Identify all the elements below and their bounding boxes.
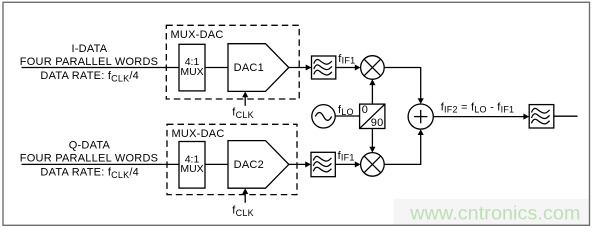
svg-text:Q-DATA: Q-DATA (69, 140, 111, 152)
wire I-data input (22, 67, 180, 69)
svg-text:FOUR PARALLEL WORDS: FOUR PARALLEL WORDS (20, 152, 158, 164)
svg-text:MUX: MUX (180, 163, 203, 175)
arrowhead fCLK into DAC1 (242, 91, 248, 97)
wire phase 0 to mixer M1 (371, 85, 373, 104)
filter FL3 (529, 105, 554, 128)
svg-text:90: 90 (371, 117, 384, 129)
arrowhead into FL1 (306, 64, 312, 70)
filter FL2 (311, 152, 335, 176)
svg-text:www.cntronics.com: www.cntronics.com (409, 203, 580, 225)
svg-text:fLO: fLO (338, 104, 354, 117)
wire DAC1 to filter FL1 (288, 67, 308, 69)
arrowhead fCLK into DAC2 (242, 188, 248, 194)
oscillator LO (312, 105, 335, 128)
wire mixer M1 to summer (384, 68, 421, 101)
dashed box MUX-DAC lower (167, 124, 297, 194)
wire mixer M2 to summer (384, 134, 421, 164)
svg-text:fIF1: fIF1 (338, 53, 355, 66)
svg-text:MUX-DAC: MUX-DAC (171, 29, 224, 41)
svg-text:fCLK: fCLK (232, 107, 254, 120)
arrowhead into summer bottom (418, 129, 424, 135)
svg-text:MUX-DAC: MUX-DAC (172, 128, 225, 140)
dac DAC1 (228, 44, 289, 92)
arrowhead into mixer M2 top (369, 147, 375, 153)
wire summer to filter FL3 (433, 116, 525, 118)
wire FL2 to mixer M2 (335, 163, 356, 165)
svg-text:fIF2 = fLO - fIF1: fIF2 = fLO - fIF1 (441, 102, 515, 115)
svg-text:DAC2: DAC2 (234, 159, 264, 171)
arrowhead into FL3 (523, 114, 529, 120)
svg-text:DATA RATE: fCLK/4: DATA RATE: fCLK/4 (40, 167, 139, 180)
summer (408, 104, 433, 129)
svg-text:fIF1: fIF1 (338, 150, 355, 163)
svg-text:0: 0 (362, 104, 368, 116)
wire FL1 to mixer M1 (336, 67, 357, 69)
filter FL1 (312, 56, 336, 79)
phase splitter 0/90 (360, 104, 385, 128)
dashed box MUX-DAC upper (166, 25, 299, 99)
mixer M2 (361, 153, 385, 177)
wire phase 90 to mixer M2 (371, 129, 373, 148)
arrowhead into mixer M1 (355, 64, 361, 70)
wire FL3 output (554, 115, 578, 117)
wire Q-data input (22, 163, 180, 165)
svg-text:fCLK: fCLK (232, 205, 254, 218)
watermark band (394, 199, 589, 225)
mixer M1 (361, 56, 385, 80)
arrowhead into summer top (418, 98, 424, 104)
arrowhead into mixer M1 bottom (369, 79, 375, 85)
svg-text:DATA RATE: fCLK/4: DATA RATE: fCLK/4 (40, 70, 139, 83)
wire MUX1 to DAC1 (205, 67, 228, 69)
wire LO to phase splitter (335, 115, 359, 117)
svg-text:DAC1: DAC1 (234, 62, 264, 74)
wire MUX2 to DAC2 (205, 163, 228, 165)
wire fCLK to DAC1 (244, 93, 246, 106)
arrowhead into FL2 (305, 161, 311, 167)
dac DAC2 (228, 141, 289, 189)
wire DAC2 to filter FL2 (288, 163, 307, 165)
arrowhead into mixer M2 (355, 161, 361, 167)
wire fCLK to DAC2 (244, 190, 246, 203)
svg-text:I-DATA: I-DATA (71, 43, 107, 55)
mux U2 4:1 box (179, 142, 205, 189)
mux U1 4:1 box (179, 44, 205, 91)
svg-text:MUX: MUX (180, 66, 203, 78)
svg-text:FOUR PARALLEL WORDS: FOUR PARALLEL WORDS (20, 56, 158, 68)
